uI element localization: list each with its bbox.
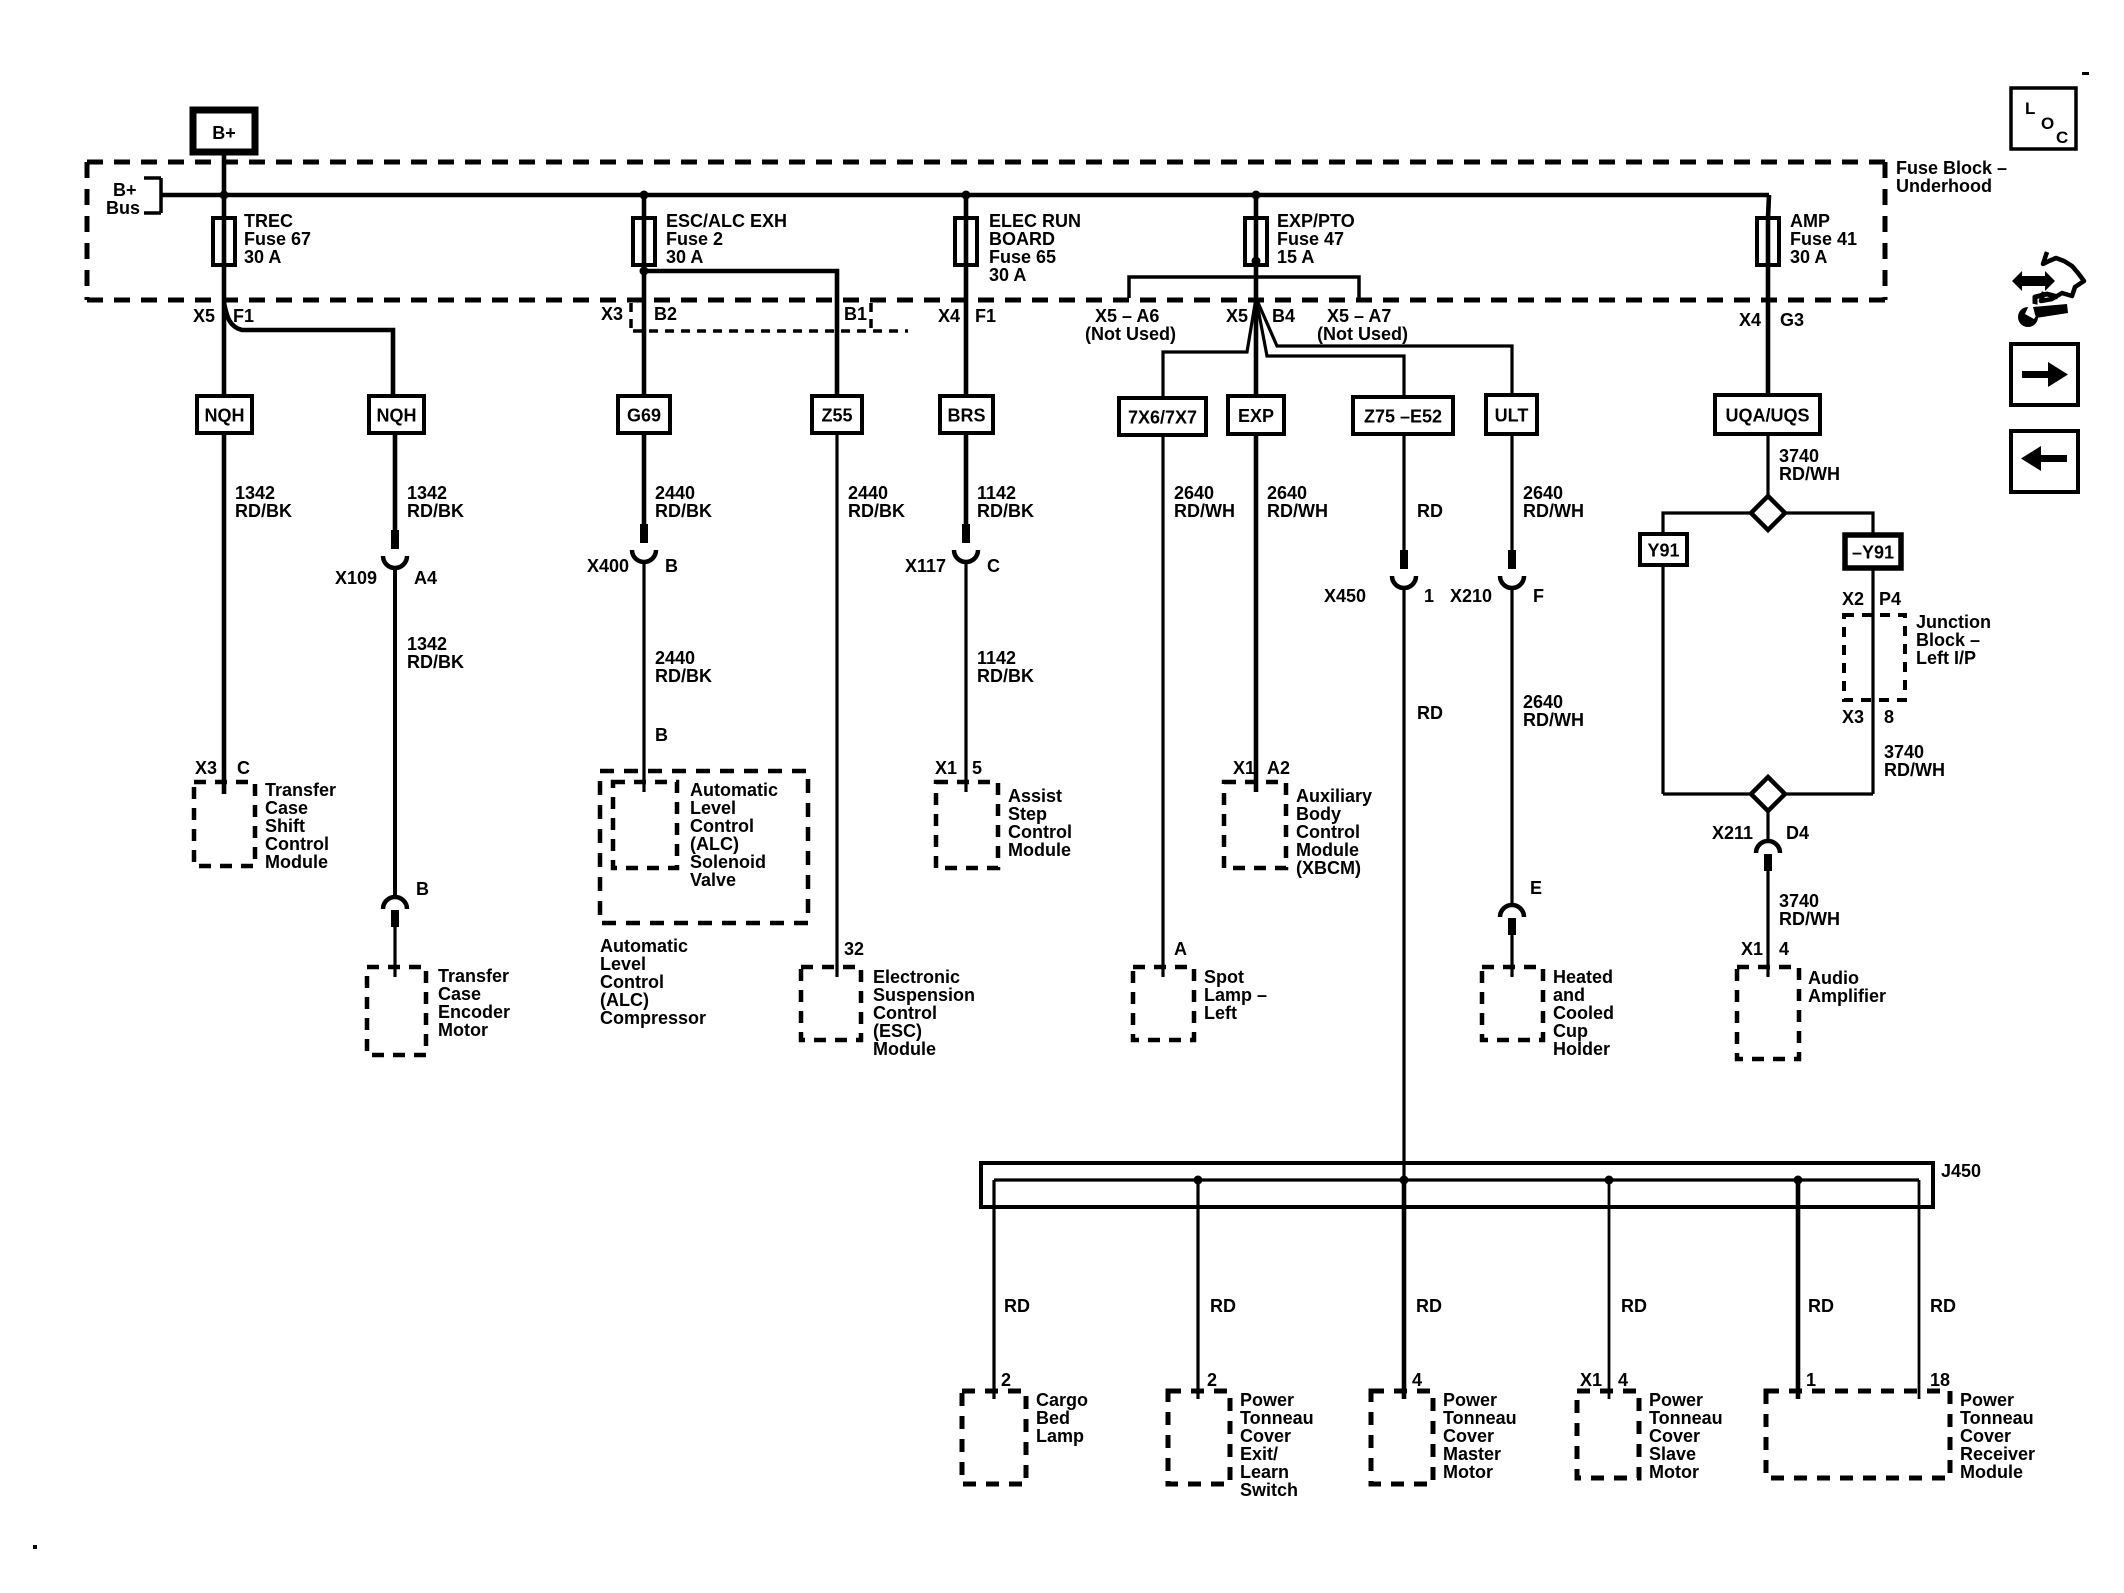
svg-text:Learn: Learn bbox=[1240, 1462, 1289, 1482]
svg-text:Module: Module bbox=[873, 1039, 936, 1059]
svg-text:X5: X5 bbox=[1226, 306, 1248, 326]
svg-text:RD/WH: RD/WH bbox=[1174, 501, 1235, 521]
svg-text:4: 4 bbox=[1412, 1370, 1422, 1390]
svg-text:5: 5 bbox=[972, 758, 982, 778]
svg-text:TREC: TREC bbox=[244, 211, 293, 231]
svg-text:Control: Control bbox=[265, 834, 329, 854]
svg-text:Control: Control bbox=[873, 1003, 937, 1023]
svg-text:Cargo: Cargo bbox=[1036, 1390, 1088, 1410]
svg-text:EXP/PTO: EXP/PTO bbox=[1277, 211, 1355, 231]
svg-text:RD/BK: RD/BK bbox=[848, 501, 905, 521]
svg-text:1: 1 bbox=[1806, 1370, 1816, 1390]
svg-text:Module: Module bbox=[1008, 840, 1071, 860]
svg-text:Fuse 47: Fuse 47 bbox=[1277, 229, 1344, 249]
svg-text:P4: P4 bbox=[1879, 589, 1901, 609]
svg-text:G69: G69 bbox=[627, 406, 661, 426]
svg-text:7X6/7X7: 7X6/7X7 bbox=[1128, 408, 1197, 428]
svg-text:Block –: Block – bbox=[1916, 630, 1980, 650]
svg-text:Automatic: Automatic bbox=[600, 936, 688, 956]
svg-text:Tonneau: Tonneau bbox=[1240, 1408, 1314, 1428]
svg-text:(XBCM): (XBCM) bbox=[1296, 858, 1361, 878]
svg-text:18: 18 bbox=[1930, 1370, 1950, 1390]
svg-text:Level: Level bbox=[600, 954, 646, 974]
svg-text:Amplifier: Amplifier bbox=[1808, 986, 1886, 1006]
svg-text:Audio: Audio bbox=[1808, 968, 1859, 988]
svg-text:3740: 3740 bbox=[1884, 742, 1924, 762]
svg-text:X117: X117 bbox=[905, 556, 946, 576]
svg-text:2440: 2440 bbox=[848, 483, 888, 503]
svg-text:Power: Power bbox=[1649, 1390, 1703, 1410]
svg-text:Receiver: Receiver bbox=[1960, 1444, 2035, 1464]
svg-text:2: 2 bbox=[1001, 1370, 1011, 1390]
svg-text:RD: RD bbox=[1004, 1296, 1030, 1316]
svg-text:RD/WH: RD/WH bbox=[1779, 909, 1840, 929]
svg-text:Level: Level bbox=[690, 798, 736, 818]
svg-text:Compressor: Compressor bbox=[600, 1008, 706, 1028]
svg-text:RD/BK: RD/BK bbox=[655, 666, 712, 686]
svg-text:Master: Master bbox=[1443, 1444, 1501, 1464]
svg-text:Tonneau: Tonneau bbox=[1443, 1408, 1517, 1428]
svg-text:Slave: Slave bbox=[1649, 1444, 1696, 1464]
svg-text:Cooled: Cooled bbox=[1553, 1003, 1614, 1023]
svg-text:Tonneau: Tonneau bbox=[1649, 1408, 1723, 1428]
svg-text:Z55: Z55 bbox=[821, 406, 852, 426]
svg-text:Fuse Block –: Fuse Block – bbox=[1896, 158, 2007, 178]
svg-text:RD/BK: RD/BK bbox=[977, 666, 1034, 686]
svg-text:Spot: Spot bbox=[1204, 967, 1244, 987]
svg-text:O: O bbox=[2041, 114, 2054, 133]
svg-text:Solenoid: Solenoid bbox=[690, 852, 766, 872]
svg-text:Module: Module bbox=[1296, 840, 1359, 860]
svg-text:Holder: Holder bbox=[1553, 1039, 1610, 1059]
svg-text:30 A: 30 A bbox=[666, 247, 703, 267]
svg-text:L: L bbox=[2025, 99, 2035, 118]
svg-text:2440: 2440 bbox=[655, 483, 695, 503]
svg-text:BOARD: BOARD bbox=[989, 229, 1055, 249]
svg-text:X109: X109 bbox=[335, 568, 377, 588]
svg-text:Control: Control bbox=[1296, 822, 1360, 842]
svg-text:Power: Power bbox=[1960, 1390, 2014, 1410]
svg-text:F: F bbox=[1533, 586, 1544, 606]
svg-text:NQH: NQH bbox=[205, 406, 245, 426]
svg-text:Motor: Motor bbox=[438, 1020, 488, 1040]
svg-text:Tonneau: Tonneau bbox=[1960, 1408, 2034, 1428]
svg-text:2640: 2640 bbox=[1267, 483, 1307, 503]
svg-text:Exit/: Exit/ bbox=[1240, 1444, 1278, 1464]
svg-text:Bus: Bus bbox=[106, 198, 140, 218]
svg-text:Step: Step bbox=[1008, 804, 1047, 824]
svg-text:Assist: Assist bbox=[1008, 786, 1062, 806]
svg-text:C: C bbox=[987, 556, 1000, 576]
svg-text:NQH: NQH bbox=[377, 406, 417, 426]
svg-text:A4: A4 bbox=[414, 568, 437, 588]
svg-text:B+: B+ bbox=[212, 123, 236, 143]
svg-text:1142: 1142 bbox=[977, 648, 1016, 668]
svg-text:BRS: BRS bbox=[947, 406, 985, 426]
svg-text:C: C bbox=[237, 758, 250, 778]
svg-text:X450: X450 bbox=[1324, 586, 1366, 606]
svg-text:RD/WH: RD/WH bbox=[1884, 760, 1945, 780]
svg-text:ULT: ULT bbox=[1495, 406, 1529, 426]
svg-text:(ESC): (ESC) bbox=[873, 1021, 922, 1041]
svg-text:UQA/UQS: UQA/UQS bbox=[1725, 406, 1809, 426]
svg-text:(Not Used): (Not Used) bbox=[1317, 324, 1408, 344]
svg-text:4: 4 bbox=[1779, 939, 1789, 959]
svg-text:AMP: AMP bbox=[1790, 211, 1830, 231]
svg-text:Valve: Valve bbox=[690, 870, 736, 890]
svg-text:X1: X1 bbox=[935, 758, 957, 778]
svg-text:RD/BK: RD/BK bbox=[407, 652, 464, 672]
svg-text:Transfer: Transfer bbox=[265, 780, 336, 800]
svg-text:RD/WH: RD/WH bbox=[1779, 464, 1840, 484]
svg-text:J450: J450 bbox=[1941, 1161, 1981, 1181]
svg-text:B2: B2 bbox=[654, 304, 677, 324]
svg-text:1142: 1142 bbox=[977, 483, 1016, 503]
svg-text:Y91: Y91 bbox=[1647, 541, 1679, 561]
svg-text:2440: 2440 bbox=[655, 648, 695, 668]
svg-text:Control: Control bbox=[1008, 822, 1072, 842]
svg-text:30 A: 30 A bbox=[244, 247, 281, 267]
svg-text:30 A: 30 A bbox=[1790, 247, 1827, 267]
svg-text:RD/WH: RD/WH bbox=[1267, 501, 1328, 521]
svg-text:F1: F1 bbox=[975, 306, 996, 326]
svg-text:Cover: Cover bbox=[1960, 1426, 2011, 1446]
svg-text:RD: RD bbox=[1416, 1296, 1442, 1316]
svg-text:Case: Case bbox=[265, 798, 308, 818]
svg-text:Left: Left bbox=[1204, 1003, 1237, 1023]
svg-text:4: 4 bbox=[1618, 1370, 1628, 1390]
svg-text:X1: X1 bbox=[1233, 758, 1255, 778]
svg-text:X5 – A6: X5 – A6 bbox=[1095, 306, 1159, 326]
svg-text:Encoder: Encoder bbox=[438, 1002, 510, 1022]
svg-text:A2: A2 bbox=[1267, 758, 1290, 778]
svg-text:15 A: 15 A bbox=[1277, 247, 1314, 267]
svg-text:3740: 3740 bbox=[1779, 446, 1819, 466]
svg-text:A: A bbox=[1174, 939, 1187, 959]
svg-text:X4: X4 bbox=[1739, 310, 1761, 330]
svg-text:RD/BK: RD/BK bbox=[235, 501, 292, 521]
svg-text:–Y91: –Y91 bbox=[1852, 543, 1894, 563]
svg-text:X1: X1 bbox=[1580, 1370, 1602, 1390]
svg-text:RD/BK: RD/BK bbox=[977, 501, 1034, 521]
svg-text:Auxiliary: Auxiliary bbox=[1296, 786, 1372, 806]
svg-text:X1: X1 bbox=[1741, 939, 1763, 959]
svg-text:and: and bbox=[1553, 985, 1585, 1005]
svg-text:(Not Used): (Not Used) bbox=[1085, 324, 1176, 344]
svg-text:Electronic: Electronic bbox=[873, 967, 960, 987]
svg-text:Fuse 67: Fuse 67 bbox=[244, 229, 311, 249]
svg-text:Suspension: Suspension bbox=[873, 985, 975, 1005]
svg-text:RD/BK: RD/BK bbox=[655, 501, 712, 521]
svg-text:Cover: Cover bbox=[1443, 1426, 1494, 1446]
svg-text:ELEC RUN: ELEC RUN bbox=[989, 211, 1081, 231]
svg-text:Control: Control bbox=[690, 816, 754, 836]
svg-text:RD: RD bbox=[1621, 1296, 1647, 1316]
svg-text:G3: G3 bbox=[1780, 310, 1804, 330]
svg-text:Automatic: Automatic bbox=[690, 780, 778, 800]
svg-text:ESC/ALC EXH: ESC/ALC EXH bbox=[666, 211, 787, 231]
svg-text:(ALC): (ALC) bbox=[600, 990, 649, 1010]
svg-text:RD: RD bbox=[1417, 703, 1443, 723]
svg-text:X5 – A7: X5 – A7 bbox=[1327, 306, 1391, 326]
svg-text:Switch: Switch bbox=[1240, 1480, 1298, 1500]
svg-text:Module: Module bbox=[1960, 1462, 2023, 1482]
svg-text:B+: B+ bbox=[113, 180, 137, 200]
svg-text:Cover: Cover bbox=[1649, 1426, 1700, 1446]
svg-text:RD/WH: RD/WH bbox=[1523, 501, 1584, 521]
svg-text:Lamp –: Lamp – bbox=[1204, 985, 1267, 1005]
svg-text:RD/BK: RD/BK bbox=[407, 501, 464, 521]
svg-text:Lamp: Lamp bbox=[1036, 1426, 1084, 1446]
svg-text:X210: X210 bbox=[1450, 586, 1492, 606]
svg-text:F1: F1 bbox=[233, 306, 254, 326]
svg-text:30 A: 30 A bbox=[989, 265, 1026, 285]
svg-text:X3: X3 bbox=[195, 758, 217, 778]
svg-text:Control: Control bbox=[600, 972, 664, 992]
svg-text:Fuse 2: Fuse 2 bbox=[666, 229, 723, 249]
svg-text:Motor: Motor bbox=[1649, 1462, 1699, 1482]
svg-text:2640: 2640 bbox=[1523, 483, 1563, 503]
svg-text:Power: Power bbox=[1240, 1390, 1294, 1410]
svg-text:B: B bbox=[665, 556, 678, 576]
svg-text:2: 2 bbox=[1207, 1370, 1217, 1390]
svg-text:Power: Power bbox=[1443, 1390, 1497, 1410]
svg-text:Bed: Bed bbox=[1036, 1408, 1070, 1428]
svg-text:2640: 2640 bbox=[1174, 483, 1214, 503]
svg-text:Cup: Cup bbox=[1553, 1021, 1588, 1041]
svg-text:X5: X5 bbox=[193, 306, 215, 326]
svg-text:RD: RD bbox=[1210, 1296, 1236, 1316]
svg-text:1342: 1342 bbox=[407, 634, 447, 654]
svg-text:3740: 3740 bbox=[1779, 891, 1819, 911]
svg-text:(ALC): (ALC) bbox=[690, 834, 739, 854]
svg-text:E: E bbox=[1530, 878, 1542, 898]
svg-text:RD: RD bbox=[1808, 1296, 1834, 1316]
svg-text:B: B bbox=[655, 725, 668, 745]
svg-text:2640: 2640 bbox=[1523, 692, 1563, 712]
svg-text:Heated: Heated bbox=[1553, 967, 1613, 987]
svg-text:1: 1 bbox=[1424, 586, 1434, 606]
svg-text:RD: RD bbox=[1417, 501, 1443, 521]
svg-text:Shift: Shift bbox=[265, 816, 305, 836]
svg-text:C: C bbox=[2056, 128, 2068, 147]
svg-text:X3: X3 bbox=[601, 304, 623, 324]
svg-text:X3: X3 bbox=[1842, 707, 1864, 727]
svg-text:X400: X400 bbox=[587, 556, 629, 576]
svg-text:Fuse 41: Fuse 41 bbox=[1790, 229, 1857, 249]
svg-text:Underhood: Underhood bbox=[1896, 176, 1992, 196]
svg-text:Junction: Junction bbox=[1916, 612, 1991, 632]
svg-text:RD: RD bbox=[1930, 1296, 1956, 1316]
svg-text:X2: X2 bbox=[1842, 589, 1864, 609]
svg-text:Body: Body bbox=[1296, 804, 1341, 824]
svg-text:Transfer: Transfer bbox=[438, 966, 509, 986]
svg-text:B1: B1 bbox=[844, 304, 867, 324]
svg-text:B4: B4 bbox=[1272, 306, 1295, 326]
svg-text:D4: D4 bbox=[1786, 823, 1809, 843]
svg-text:EXP: EXP bbox=[1238, 406, 1274, 426]
svg-text:1342: 1342 bbox=[407, 483, 447, 503]
svg-text:Left I/P: Left I/P bbox=[1916, 648, 1976, 668]
svg-text:Motor: Motor bbox=[1443, 1462, 1493, 1482]
svg-text:32: 32 bbox=[844, 939, 864, 959]
svg-text:Cover: Cover bbox=[1240, 1426, 1291, 1446]
svg-text:Fuse 65: Fuse 65 bbox=[989, 247, 1056, 267]
svg-text:Z75 –E52: Z75 –E52 bbox=[1364, 407, 1442, 427]
svg-text:X211: X211 bbox=[1712, 823, 1753, 843]
svg-text:1342: 1342 bbox=[235, 483, 275, 503]
svg-text:8: 8 bbox=[1884, 707, 1894, 727]
svg-text:RD/WH: RD/WH bbox=[1523, 710, 1584, 730]
svg-text:X4: X4 bbox=[938, 306, 960, 326]
svg-text:Case: Case bbox=[438, 984, 481, 1004]
svg-text:B: B bbox=[416, 879, 429, 899]
svg-text:Module: Module bbox=[265, 852, 328, 872]
